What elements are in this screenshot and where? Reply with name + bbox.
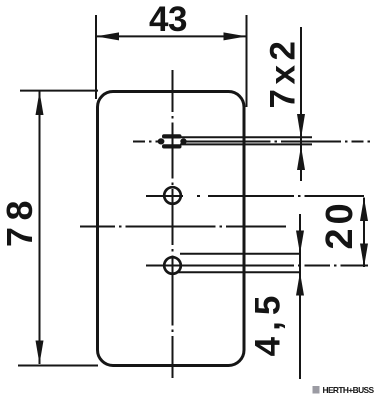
middle hole <box>164 187 181 204</box>
arrow 78 bottom <box>36 341 44 365</box>
dimension line 78 <box>39 91 41 364</box>
arrow 7x2 lower <box>297 146 305 170</box>
svg-text:4,5: 4,5 <box>249 290 288 357</box>
middle hole centerline <box>146 195 364 197</box>
arrow 78 top <box>36 91 44 115</box>
dimension line 4,5 <box>299 214 301 379</box>
dimension 43 extension line right <box>246 15 248 107</box>
arrow 20 bottom <box>360 244 368 268</box>
arrow 4,5 lower <box>296 272 304 295</box>
dimension line 20 <box>363 198 365 268</box>
svg-text:HERTH+BUSS: HERTH+BUSS <box>323 385 375 395</box>
top slot lower edge extension line <box>180 143 312 145</box>
vertical centerline <box>172 70 174 382</box>
logo herth+buss <box>313 385 375 395</box>
arrow 4,5 upper <box>296 231 304 254</box>
plate horizontal centerline <box>80 226 302 228</box>
arrow 7x2 upper <box>297 114 305 139</box>
arrow 20 top <box>360 198 368 222</box>
arrow 43 left <box>96 32 119 40</box>
dimension 43 extension line left <box>95 15 97 99</box>
svg-text:78: 78 <box>0 194 40 247</box>
dimension 78 top extension line <box>20 90 98 92</box>
dimension line 7x2 <box>300 27 302 181</box>
horizontal centerline of top slot <box>133 141 371 143</box>
top slot body <box>158 134 187 148</box>
svg-text:43: 43 <box>149 0 187 39</box>
bottom hole upper edge extension line <box>180 253 300 255</box>
dimension 78 bottom extension line <box>18 365 98 367</box>
plate outline <box>98 92 245 366</box>
bottom hole <box>164 257 181 274</box>
bottom hole lower edge extension line <box>178 271 300 273</box>
top slot upper edge extension line <box>180 136 312 138</box>
dimension line 43 <box>96 35 247 37</box>
svg-text:7x2: 7x2 <box>264 37 303 109</box>
arrow 43 right <box>224 32 247 40</box>
svg-text:20: 20 <box>319 199 361 249</box>
bottom hole centerline <box>146 265 368 267</box>
